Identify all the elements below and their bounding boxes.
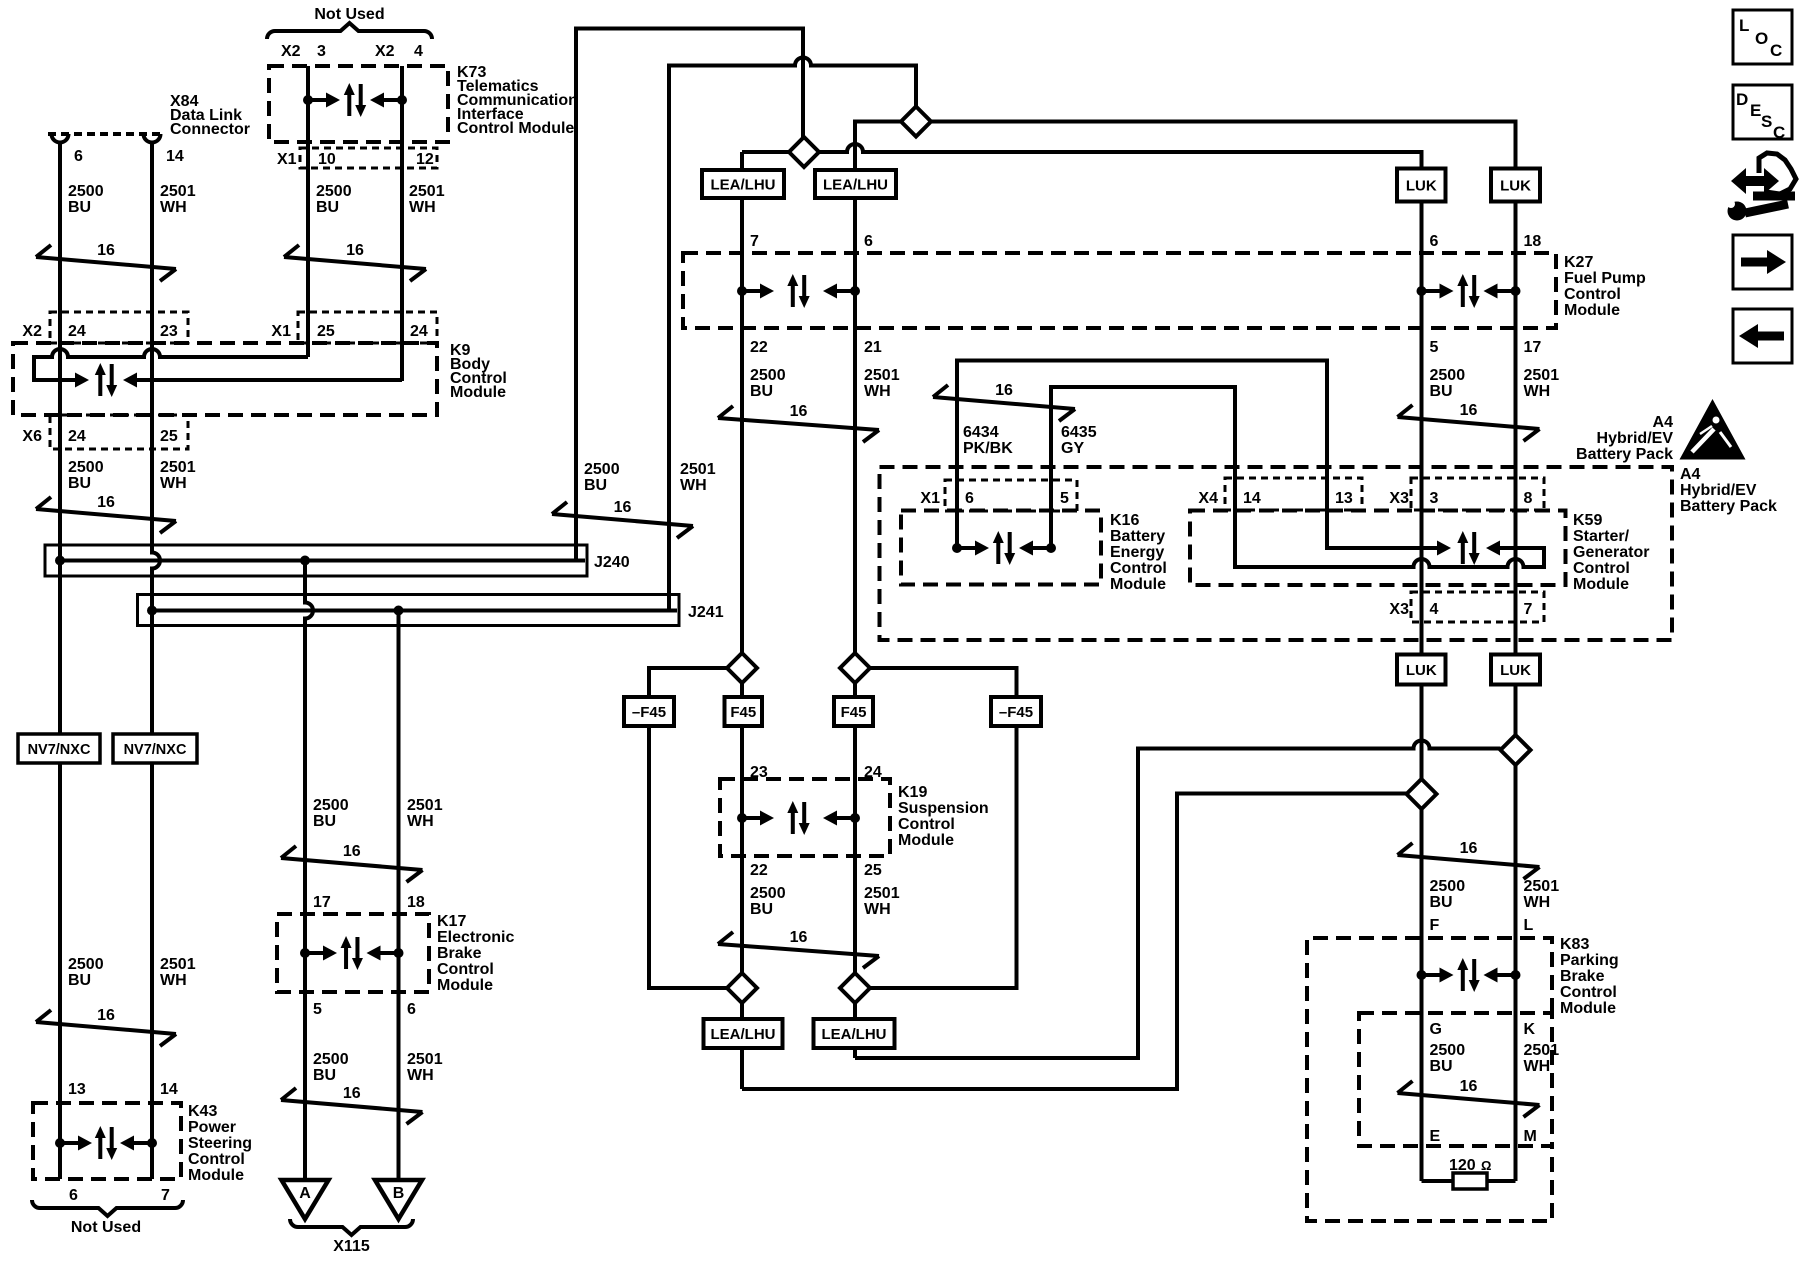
svg-text:Module: Module xyxy=(188,1167,244,1184)
svg-text:Fuel Pump: Fuel Pump xyxy=(1564,270,1646,287)
connector X115 brace xyxy=(290,1219,413,1235)
svg-text:14: 14 xyxy=(160,1081,178,1098)
svg-text:K19: K19 xyxy=(898,784,927,801)
svg-text:BU: BU xyxy=(584,477,607,494)
svg-text:2500: 2500 xyxy=(68,183,104,200)
svg-text:Control Module: Control Module xyxy=(457,120,574,137)
K73 connector pin box X1 xyxy=(300,148,437,168)
svg-text:Module: Module xyxy=(437,977,493,994)
svg-text:2501: 2501 xyxy=(864,885,900,902)
svg-text:Control: Control xyxy=(1560,984,1617,1001)
twisted pair symbol below K9 xyxy=(36,509,176,521)
svg-text:M: M xyxy=(1524,1128,1537,1145)
svg-text:Battery Pack: Battery Pack xyxy=(1576,446,1673,463)
svg-text:Control: Control xyxy=(1573,560,1630,577)
svg-text:WH: WH xyxy=(1524,1058,1551,1075)
fuse option label F45 right xyxy=(834,697,873,726)
svg-text:Starter/: Starter/ xyxy=(1573,528,1630,545)
K9 internal 2500 BU link (hops wires x=152 and x=60) with corner xyxy=(34,349,308,380)
svg-text:24: 24 xyxy=(864,764,882,781)
navigation icon LOC box xyxy=(1733,10,1792,64)
svg-text:Connector: Connector xyxy=(170,121,250,138)
svg-text:Battery: Battery xyxy=(1110,528,1165,545)
svg-text:16: 16 xyxy=(995,382,1013,399)
twisted pair symbol X84 pair xyxy=(36,257,176,269)
twisted pair symbol 6434/6435 pair xyxy=(933,397,1075,409)
svg-text:BU: BU xyxy=(1430,383,1453,400)
twisted pair symbol above K17 xyxy=(281,858,423,870)
terminating resistor 120 ohm xyxy=(1453,1173,1487,1189)
svg-text:24: 24 xyxy=(68,428,86,445)
twisted pair symbol inside K83 xyxy=(1398,1093,1540,1105)
svg-text:12: 12 xyxy=(416,151,434,168)
svg-text:6: 6 xyxy=(864,233,873,250)
K9 connector pin box X1 xyxy=(298,312,437,343)
wire 2500 BU return from lower LEA/LHU to LUK diamond xyxy=(742,794,1407,1090)
connector X115 terminal A triangle xyxy=(282,1180,329,1219)
harness option label LUK (2500 BU lower) xyxy=(1397,655,1446,685)
twisted pair symbol K73 pair xyxy=(284,257,426,269)
arrow into K9 from 2501 WH xyxy=(123,373,137,388)
svg-text:LEA/LHU: LEA/LHU xyxy=(823,177,888,194)
svg-text:7: 7 xyxy=(161,1187,170,1204)
svg-text:16: 16 xyxy=(97,242,115,259)
svg-text:LUK: LUK xyxy=(1500,178,1531,195)
svg-text:Control: Control xyxy=(188,1151,245,1168)
svg-text:PK/BK: PK/BK xyxy=(963,440,1013,457)
svg-text:LUK: LUK xyxy=(1406,662,1437,679)
svg-text:2501: 2501 xyxy=(407,1051,443,1068)
svg-text:2501: 2501 xyxy=(864,367,900,384)
svg-text:2501: 2501 xyxy=(1524,367,1560,384)
svg-text:BU: BU xyxy=(68,972,91,989)
svg-text:BU: BU xyxy=(313,813,336,830)
harness option label LEA/LHU (2501 WH lower) xyxy=(814,1019,895,1048)
splice pack J240 xyxy=(45,545,587,576)
svg-text:Module: Module xyxy=(450,384,506,401)
svg-text:2500: 2500 xyxy=(313,1051,349,1068)
wire 2501 WH from K73 pin X1-12 into K9 xyxy=(400,66,404,381)
arrow into K9 from 2500 BU xyxy=(75,373,89,388)
twisted pair symbol below K17 xyxy=(281,1100,423,1112)
K43 serial data symbol xyxy=(55,1138,65,1148)
wire 2500 BU from splice J240 to K17 pin 17 (hops J241 line) xyxy=(305,561,313,1181)
svg-text:Steering: Steering xyxy=(188,1135,252,1152)
svg-text:17: 17 xyxy=(313,894,331,911)
svg-text:K: K xyxy=(1524,1021,1536,1038)
fuse option label -F45 left xyxy=(624,697,674,726)
svg-text:2500: 2500 xyxy=(1430,367,1466,384)
svg-text:WH: WH xyxy=(864,901,891,918)
svg-text:6: 6 xyxy=(965,490,974,507)
svg-text:A4: A4 xyxy=(1653,414,1674,431)
svg-text:–F45: –F45 xyxy=(999,704,1033,721)
splice diamond 2500 BU above F45 xyxy=(727,653,757,683)
svg-text:J241: J241 xyxy=(688,604,724,621)
svg-text:23: 23 xyxy=(750,764,768,781)
svg-text:J240: J240 xyxy=(594,554,630,571)
svg-text:16: 16 xyxy=(1460,1078,1478,1095)
svg-text:X2: X2 xyxy=(281,43,301,60)
svg-text:16: 16 xyxy=(97,494,115,511)
wire 2501 WH return from lower LEA/LHU to LUK diamond (hop over x=1421.5) xyxy=(855,741,1501,1059)
svg-text:E: E xyxy=(1750,101,1761,120)
svg-text:L: L xyxy=(1524,917,1534,934)
svg-text:24: 24 xyxy=(68,323,86,340)
svg-text:Power: Power xyxy=(188,1119,236,1136)
svg-text:F45: F45 xyxy=(730,704,756,721)
svg-text:18: 18 xyxy=(1524,233,1542,250)
svg-text:8: 8 xyxy=(1524,490,1533,507)
wire 2501 WH from X84 pin 14 through K9 (hop over J240 line) to K43 pin 14 xyxy=(152,141,160,1179)
svg-text:F45: F45 xyxy=(841,704,867,721)
splice diamond 2500 BU below K19 xyxy=(727,973,757,1003)
splice diamond 2500 BU top xyxy=(789,137,819,167)
A4 connector pin box X1 xyxy=(945,480,1077,511)
fuse option label F45 left xyxy=(725,697,763,726)
svg-text:WH: WH xyxy=(1524,383,1551,400)
splice diamond 2501 WH top xyxy=(901,107,931,137)
splice diamond 2500 BU right column xyxy=(1407,779,1437,809)
wire 2500 BU from X84 pin 6 through K9 and J240 to K43 pin 13 xyxy=(58,141,62,1179)
svg-text:25: 25 xyxy=(160,428,178,445)
svg-text:LUK: LUK xyxy=(1406,178,1437,195)
svg-text:2500: 2500 xyxy=(1430,1042,1466,1059)
twisted pair symbol LUK pair below K27 xyxy=(1398,417,1540,429)
A4 connector pin box X3 (pins 3/8) xyxy=(1411,478,1544,510)
connector X84 dashed body xyxy=(48,132,164,136)
svg-text:16: 16 xyxy=(790,929,808,946)
svg-text:Not Used: Not Used xyxy=(314,6,384,23)
svg-text:WH: WH xyxy=(407,1067,434,1084)
wire 2501 WH riser from J241 (hops riser at x=803) to splice diamond xyxy=(669,58,916,611)
twisted pair symbol riser pair xyxy=(552,514,693,526)
svg-text:BU: BU xyxy=(1430,894,1453,911)
svg-text:WH: WH xyxy=(1524,894,1551,911)
svg-text:B: B xyxy=(393,1185,405,1202)
svg-text:16: 16 xyxy=(614,499,632,516)
svg-text:6: 6 xyxy=(74,148,83,165)
svg-text:24: 24 xyxy=(410,323,428,340)
harness option label LUK (2501 WH lower) xyxy=(1491,655,1540,685)
svg-text:2501: 2501 xyxy=(409,183,445,200)
svg-text:6434: 6434 xyxy=(963,424,999,441)
wire 2500 BU branch to LEA/LHU column and to LUK column (hop over x=855) xyxy=(742,144,1422,169)
module K9 Body Control Module box xyxy=(13,343,437,415)
harness option label LEA/LHU (2500 BU lower) xyxy=(704,1019,783,1048)
svg-text:X3: X3 xyxy=(1389,490,1409,507)
svg-text:WH: WH xyxy=(160,972,187,989)
svg-text:16: 16 xyxy=(97,1007,115,1024)
junction dot J241 / X84 branch xyxy=(147,606,157,616)
svg-text:2501: 2501 xyxy=(160,459,196,476)
harness option label LUK (2501 WH upper) xyxy=(1491,169,1540,202)
svg-text:A4: A4 xyxy=(1680,466,1701,483)
splice pack J241 xyxy=(138,595,680,626)
svg-text:16: 16 xyxy=(343,843,361,860)
K27 serial data symbol (LUK bus) xyxy=(1417,286,1427,296)
K19 serial data symbol xyxy=(737,813,747,823)
module K83 inner connector box xyxy=(1359,1013,1552,1146)
module K19 Suspension Control Module box xyxy=(720,779,890,856)
svg-text:K43: K43 xyxy=(188,1103,217,1120)
svg-text:25: 25 xyxy=(317,323,335,340)
svg-text:G: G xyxy=(1430,1021,1442,1038)
svg-text:2500: 2500 xyxy=(750,885,786,902)
svg-text:K16: K16 xyxy=(1110,512,1139,529)
svg-text:Generator: Generator xyxy=(1573,544,1649,561)
svg-text:X6: X6 xyxy=(22,428,42,445)
svg-text:13: 13 xyxy=(1335,490,1353,507)
module A4 Hybrid/EV Battery Pack outer box xyxy=(880,467,1673,640)
splice diamond 2501 WH right column xyxy=(1501,735,1531,765)
K59 serial data up/down arrows xyxy=(1461,540,1465,564)
module K73 serial data symbol xyxy=(303,95,313,105)
module K17 Electronic Brake Control Module box xyxy=(277,914,429,992)
svg-text:WH: WH xyxy=(409,199,436,216)
svg-text:18: 18 xyxy=(407,894,425,911)
svg-text:LUK: LUK xyxy=(1500,662,1531,679)
svg-text:Battery Pack: Battery Pack xyxy=(1680,498,1777,515)
svg-text:2501: 2501 xyxy=(407,797,443,814)
module K73 Telematics Communication Interface Control Module box xyxy=(269,66,448,142)
wire 2501 WH from splice J241 to K17 pin 18 xyxy=(397,611,401,1181)
svg-text:LEA/LHU: LEA/LHU xyxy=(822,1026,887,1043)
K16 serial data symbol xyxy=(952,543,962,553)
svg-text:16: 16 xyxy=(346,242,364,259)
K9 connector pin box X6 xyxy=(50,415,188,449)
svg-text:Control: Control xyxy=(898,816,955,833)
svg-text:5: 5 xyxy=(313,1001,322,1018)
K17 serial data symbol xyxy=(300,948,310,958)
navigation icon DESC box xyxy=(1733,85,1792,139)
splice diamond 2501 WH above F45 xyxy=(840,653,870,683)
junction dot J241 / K17 branch xyxy=(394,606,404,616)
twisted pair symbol LEA pair below K27 xyxy=(718,418,879,430)
svg-text:3: 3 xyxy=(1430,490,1439,507)
svg-text:2501: 2501 xyxy=(680,461,716,478)
svg-text:GY: GY xyxy=(1061,440,1084,457)
module K27 Fuel Pump Control Module box xyxy=(683,253,1556,328)
svg-text:K59: K59 xyxy=(1573,512,1602,529)
svg-text:BU: BU xyxy=(68,199,91,216)
wire 2501 WH branch: from diamond left to x=855 down, and right to LUK column xyxy=(855,122,1516,1059)
svg-text:2501: 2501 xyxy=(1524,878,1560,895)
svg-text:2500: 2500 xyxy=(68,459,104,476)
Not Used brace over K73 top pins xyxy=(267,23,432,39)
wire 2500 BU from K73 pin X1-10 into K9 xyxy=(306,66,310,357)
svg-text:BU: BU xyxy=(1430,1058,1453,1075)
svg-text:Parking: Parking xyxy=(1560,952,1619,969)
svg-text:6: 6 xyxy=(1430,233,1439,250)
svg-text:S: S xyxy=(1761,112,1772,131)
svg-text:7: 7 xyxy=(1524,601,1533,618)
svg-text:6: 6 xyxy=(69,1187,78,1204)
twisted pair symbol below K19 xyxy=(718,944,879,956)
svg-text:NV7/NXC: NV7/NXC xyxy=(28,742,91,758)
svg-text:2501: 2501 xyxy=(160,956,196,973)
twisted pair symbol above K83 xyxy=(1398,855,1540,867)
svg-text:K83: K83 xyxy=(1560,936,1589,953)
svg-text:16: 16 xyxy=(790,403,808,420)
svg-text:5: 5 xyxy=(1430,339,1439,356)
junction dot J240 / X84 branch xyxy=(55,556,65,566)
svg-text:2500: 2500 xyxy=(1430,878,1466,895)
svg-text:16: 16 xyxy=(1460,402,1478,419)
wire 2500 BU down LEA/LHU column through K19 to lower LEA/LHU xyxy=(740,152,744,1089)
svg-text:WH: WH xyxy=(160,475,187,492)
svg-text:2500: 2500 xyxy=(313,797,349,814)
svg-text:10: 10 xyxy=(318,151,336,168)
svg-text:5: 5 xyxy=(1060,490,1069,507)
svg-text:WH: WH xyxy=(160,199,187,216)
svg-text:X1: X1 xyxy=(271,323,291,340)
svg-text:K17: K17 xyxy=(437,913,466,930)
svg-text:14: 14 xyxy=(166,148,184,165)
svg-text:120: 120 xyxy=(1449,1157,1476,1174)
svg-text:BU: BU xyxy=(750,383,773,400)
svg-text:K27: K27 xyxy=(1564,254,1593,271)
Not Used brace under K43 xyxy=(32,1200,183,1216)
svg-text:C: C xyxy=(1773,123,1785,142)
svg-text:L: L xyxy=(1739,16,1749,35)
K59 connector pin box X3 (pins 4/7) xyxy=(1411,592,1544,622)
A4 hybrid warning triangle icon xyxy=(1680,399,1746,460)
connector X84 pin 14 cup xyxy=(144,134,161,143)
wire 6435 GY from K16 pin X1-5 to K59 pin X4-14 and wrap to symbol (hops pins X3-3/8 wires) xyxy=(1051,387,1544,567)
svg-text:Ω: Ω xyxy=(1481,1158,1491,1173)
svg-text:21: 21 xyxy=(864,339,882,356)
svg-text:Module: Module xyxy=(898,832,954,849)
harness option label LEA/LHU (2501 WH upper) xyxy=(815,170,896,198)
svg-text:BU: BU xyxy=(313,1067,336,1084)
svg-text:A: A xyxy=(299,1185,311,1202)
splice diamond 2501 WH below K19 xyxy=(840,973,870,1003)
svg-text:NV7/NXC: NV7/NXC xyxy=(124,742,187,758)
svg-text:2500: 2500 xyxy=(584,461,620,478)
K27 serial data symbol (LEA/LHU bus) xyxy=(737,286,747,296)
arrow into K59 from circuit 6435 xyxy=(1486,541,1500,556)
svg-text:Brake: Brake xyxy=(437,945,482,962)
connector X115 terminal B triangle xyxy=(375,1180,422,1219)
twisted pair symbol above K43 xyxy=(36,1022,176,1034)
svg-text:X1: X1 xyxy=(920,490,940,507)
harness option label NV7/NXC right xyxy=(113,734,197,763)
svg-text:WH: WH xyxy=(680,477,707,494)
svg-text:6: 6 xyxy=(407,1001,416,1018)
svg-text:Module: Module xyxy=(1564,302,1620,319)
svg-text:X2: X2 xyxy=(22,323,42,340)
harness option label LUK (2500 BU upper) xyxy=(1397,169,1446,202)
svg-text:C: C xyxy=(1770,41,1782,60)
svg-text:X3: X3 xyxy=(1389,601,1409,618)
svg-text:Module: Module xyxy=(1110,576,1166,593)
A4 connector pin box X4 xyxy=(1225,478,1362,510)
arrow into K59 from circuit 6434 xyxy=(1437,541,1451,556)
svg-text:LEA/LHU: LEA/LHU xyxy=(711,177,776,194)
svg-text:Brake: Brake xyxy=(1560,968,1605,985)
svg-text:13: 13 xyxy=(68,1081,86,1098)
svg-text:WH: WH xyxy=(864,383,891,400)
wire -F45 bypass loop left (2500 BU) xyxy=(649,668,727,988)
svg-text:LEA/LHU: LEA/LHU xyxy=(711,1026,776,1043)
module K16 Battery Energy Control Module box xyxy=(901,511,1101,585)
svg-text:Hybrid/EV: Hybrid/EV xyxy=(1597,430,1674,447)
svg-text:BU: BU xyxy=(750,901,773,918)
module K59 Starter/Generator Control Module box xyxy=(1190,511,1566,586)
wire 120 ohm terminator link in K83 xyxy=(1422,1179,1516,1183)
navigation icon harness routing (double arrow + wrench) xyxy=(1731,168,1779,194)
svg-text:22: 22 xyxy=(750,862,768,879)
svg-text:X1: X1 xyxy=(277,151,297,168)
svg-text:–F45: –F45 xyxy=(632,704,666,721)
svg-text:2500: 2500 xyxy=(68,956,104,973)
module K43 Power Steering Control Module box xyxy=(33,1103,181,1179)
svg-text:22: 22 xyxy=(750,339,768,356)
svg-text:2500: 2500 xyxy=(316,183,352,200)
wire -F45 bypass loop right (2501 WH) xyxy=(870,668,1017,988)
svg-text:BU: BU xyxy=(316,199,339,216)
svg-text:2501: 2501 xyxy=(1524,1042,1560,1059)
harness option label LEA/LHU (2500 BU upper) xyxy=(702,170,784,198)
svg-text:Control: Control xyxy=(1564,286,1621,303)
svg-text:WH: WH xyxy=(407,813,434,830)
svg-text:X2: X2 xyxy=(375,43,395,60)
K83 serial data symbol xyxy=(1417,970,1427,980)
svg-text:Energy: Energy xyxy=(1110,544,1164,561)
svg-text:23: 23 xyxy=(160,323,178,340)
svg-text:25: 25 xyxy=(864,862,882,879)
fuse option label -F45 right xyxy=(991,697,1041,726)
svg-text:X115: X115 xyxy=(333,1238,370,1255)
K9 serial-data up/down arrows xyxy=(98,372,102,396)
wire 6434 PK/BK from K16 pin X1-6 to K59 pin X4-13 xyxy=(957,361,1437,549)
svg-text:4: 4 xyxy=(414,43,423,60)
connector X84 pin 6 cup xyxy=(52,134,69,143)
svg-text:2501: 2501 xyxy=(160,183,196,200)
svg-text:16: 16 xyxy=(1460,840,1478,857)
svg-text:4: 4 xyxy=(1430,601,1439,618)
svg-text:Module: Module xyxy=(1560,1000,1616,1017)
wire 2501 WH LUK column down through K27, K59, K83 to terminator xyxy=(1514,122,1518,1182)
svg-text:Control: Control xyxy=(1110,560,1167,577)
svg-text:Module: Module xyxy=(1573,576,1629,593)
harness option label NV7/NXC left xyxy=(18,734,100,763)
svg-text:3: 3 xyxy=(317,43,326,60)
wire 2500 BU riser from J240 to splice diamond near LEA/LHU xyxy=(576,29,803,561)
svg-text:16: 16 xyxy=(343,1085,361,1102)
svg-text:X4: X4 xyxy=(1198,490,1218,507)
wire 2500 BU LUK column down through K27, K59, K83 to terminator xyxy=(1420,152,1424,1181)
K9 internal 2501 WH link xyxy=(137,378,402,382)
junction dot J240 / K17 branch xyxy=(300,556,310,566)
svg-text:D: D xyxy=(1736,90,1748,109)
svg-text:O: O xyxy=(1755,29,1768,48)
navigation icon previous (left arrow) box xyxy=(1733,309,1792,363)
navigation icon next (right arrow) box xyxy=(1733,235,1792,289)
svg-text:14: 14 xyxy=(1243,490,1261,507)
K9 connector pin box X2 xyxy=(50,312,188,343)
svg-text:2500: 2500 xyxy=(750,367,786,384)
svg-text:Not Used: Not Used xyxy=(71,1219,141,1236)
svg-text:E: E xyxy=(1430,1128,1441,1145)
svg-text:Control: Control xyxy=(437,961,494,978)
svg-text:Hybrid/EV: Hybrid/EV xyxy=(1680,482,1757,499)
svg-text:7: 7 xyxy=(750,233,759,250)
svg-text:Suspension: Suspension xyxy=(898,800,989,817)
module K83 Parking Brake Control Module outer box xyxy=(1307,938,1552,1221)
svg-text:17: 17 xyxy=(1524,339,1542,356)
